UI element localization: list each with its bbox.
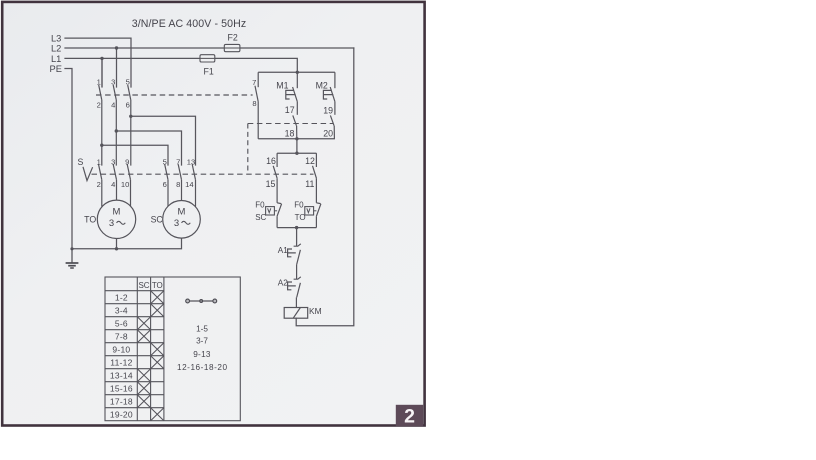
switch S actuator xyxy=(78,157,93,181)
svg-text:TO: TO xyxy=(152,281,163,290)
S contact 13-14 xyxy=(192,164,195,206)
svg-text:11: 11 xyxy=(305,179,314,189)
svg-text:5: 5 xyxy=(126,77,130,86)
svg-text:2: 2 xyxy=(97,180,101,189)
S contact 1-2 xyxy=(99,164,102,206)
wire L2 horizontal xyxy=(65,47,354,49)
wire box bottom to aux box xyxy=(296,139,298,153)
svg-text:5-6: 5-6 xyxy=(115,319,128,329)
svg-text:SC: SC xyxy=(151,214,164,224)
svg-text:L1: L1 xyxy=(51,54,61,64)
table row labels xyxy=(110,293,133,420)
motor SC (M 3~) xyxy=(151,201,201,239)
contactor box bottom bus xyxy=(258,138,335,140)
svg-text:15-16: 15-16 xyxy=(110,384,133,394)
svg-text:11-12: 11-12 xyxy=(110,358,132,368)
svg-text:15: 15 xyxy=(266,179,276,189)
svg-text:6: 6 xyxy=(163,180,167,189)
svg-text:13-14: 13-14 xyxy=(110,371,133,381)
svg-text:8: 8 xyxy=(176,180,180,189)
junction node pole1 branch xyxy=(100,144,103,147)
svg-text:F2: F2 xyxy=(228,32,238,42)
branch wire pole2 to S contact 7 xyxy=(116,131,181,166)
svg-text:9-13: 9-13 xyxy=(193,350,211,359)
svg-text:SC: SC xyxy=(138,281,149,290)
contact A1 xyxy=(278,244,301,279)
svg-text:1-2: 1-2 xyxy=(115,293,128,303)
wire pole1 lower xyxy=(101,145,103,165)
terminal group labels xyxy=(177,325,227,373)
figure badge 2 xyxy=(396,405,423,428)
svg-text:M: M xyxy=(178,206,186,217)
fuse F1 xyxy=(200,55,215,77)
wire right return from KM to L2 xyxy=(296,48,354,326)
svg-text:F0: F0 xyxy=(255,200,265,209)
fuse F2 xyxy=(224,32,240,51)
svg-text:12: 12 xyxy=(305,156,315,166)
junction node pole3 branch xyxy=(129,115,132,118)
thermal cutout F0 TO xyxy=(294,200,321,227)
contact 16-15 xyxy=(273,153,277,203)
svg-text:3-4: 3-4 xyxy=(115,306,128,316)
svg-text:3: 3 xyxy=(174,218,179,229)
motor TO (M 3~) xyxy=(84,200,136,238)
svg-text:2: 2 xyxy=(97,101,101,110)
svg-text:18: 18 xyxy=(285,129,295,139)
junction node L2/pole2 xyxy=(115,46,118,49)
svg-text:PE: PE xyxy=(50,64,62,74)
svg-text:13: 13 xyxy=(187,157,195,166)
svg-text:1-5: 1-5 xyxy=(196,325,208,334)
junction node aux box top xyxy=(295,152,298,155)
svg-text:6: 6 xyxy=(126,101,130,110)
S contact 3-4 xyxy=(113,164,116,200)
thermal cutout F0 SC xyxy=(255,200,281,227)
dashed coupling 17-18/19-20 xyxy=(248,123,333,125)
branch wire pole1 to S contact 5 xyxy=(102,145,168,165)
junction node L1/pole1 xyxy=(100,57,103,60)
S contact 5-6 xyxy=(165,164,168,206)
wire PE xyxy=(65,69,72,249)
svg-text:M: M xyxy=(113,206,121,217)
svg-text:7: 7 xyxy=(176,157,180,166)
svg-text:7: 7 xyxy=(252,78,256,87)
aux bottom bus xyxy=(277,227,316,229)
aux box top bus xyxy=(277,152,316,154)
svg-text:9: 9 xyxy=(125,157,129,166)
contact M2 xyxy=(323,72,335,115)
svg-text:10: 10 xyxy=(121,180,129,189)
svg-text:3/N/PE AC 400V - 50Hz: 3/N/PE AC 400V - 50Hz xyxy=(132,18,247,30)
wire L1 horizontal xyxy=(65,58,297,72)
junction node box top feed xyxy=(296,71,299,74)
svg-text:2: 2 xyxy=(404,405,415,427)
svg-text:M1: M1 xyxy=(276,81,288,91)
svg-text:TO: TO xyxy=(84,214,96,224)
wire L3 horizontal xyxy=(65,38,131,87)
dashed coupling main switch to contact 7/8 xyxy=(96,94,253,96)
dashed coupling S to contacts 16/12 xyxy=(92,173,314,175)
svg-text:F0: F0 xyxy=(294,200,304,209)
junction node PE corner xyxy=(70,247,73,250)
svg-text:8: 8 xyxy=(252,99,256,108)
contact M1 xyxy=(286,72,298,115)
svg-text:7-8: 7-8 xyxy=(115,332,128,342)
svg-text:3: 3 xyxy=(109,218,114,229)
contact 17-18 xyxy=(293,115,297,138)
wire L1 drop to pole 1 xyxy=(101,58,103,87)
dashed link vertical xyxy=(247,124,249,175)
svg-text:A2: A2 xyxy=(278,279,288,288)
main switch pole 1 (contacts 1-2) xyxy=(99,58,102,145)
svg-text:S: S xyxy=(78,157,84,167)
main switch pole 3 (contacts 5-6) xyxy=(128,85,131,166)
branch wire pole3 to S contact 13 xyxy=(131,116,196,165)
junction node motor TO / PE bus xyxy=(115,247,118,250)
svg-text:1: 1 xyxy=(97,157,101,166)
contact 12-11 xyxy=(313,153,317,203)
selector position symbol xyxy=(186,299,217,303)
svg-text:L3: L3 xyxy=(51,34,61,44)
svg-text:SC: SC xyxy=(255,213,266,222)
table X marks xyxy=(137,291,164,421)
contact A2 xyxy=(278,277,301,308)
svg-text:1: 1 xyxy=(97,77,101,86)
svg-text:F1: F1 xyxy=(204,67,214,77)
svg-text:12-16-18-20: 12-16-18-20 xyxy=(177,363,227,372)
wire aux bottom to A1 xyxy=(296,228,298,247)
junction node box bottom xyxy=(295,137,298,140)
svg-text:3: 3 xyxy=(111,157,115,166)
coil KM xyxy=(284,306,321,318)
main switch pole 2 (contacts 3-4) xyxy=(113,85,116,166)
svg-text:A1: A1 xyxy=(278,246,288,255)
svg-text:19: 19 xyxy=(323,105,333,115)
contact 19-20 xyxy=(330,115,334,138)
wire PE bus bottom xyxy=(72,248,117,250)
junction node pole2 branch xyxy=(115,129,118,132)
svg-text:M2: M2 xyxy=(316,81,328,91)
svg-text:9-10: 9-10 xyxy=(112,345,130,355)
svg-text:5: 5 xyxy=(163,157,167,166)
ground symbol xyxy=(66,249,79,268)
svg-text:4: 4 xyxy=(111,180,115,189)
S contact 7-8 xyxy=(178,164,181,200)
wire L2 drop to pole 2 xyxy=(116,48,118,87)
svg-text:3: 3 xyxy=(111,77,115,86)
svg-text:17: 17 xyxy=(285,105,295,115)
svg-text:TO: TO xyxy=(295,213,306,222)
S contact 9-10 xyxy=(127,164,130,206)
svg-text:L2: L2 xyxy=(51,44,61,54)
junction node aux bottom xyxy=(295,226,298,229)
contactor box top bus xyxy=(258,71,335,73)
svg-text:20: 20 xyxy=(323,129,333,139)
svg-text:19-20: 19-20 xyxy=(110,410,133,420)
svg-text:KM: KM xyxy=(309,306,322,316)
selector table xyxy=(105,277,240,421)
wire motor SC bottom xyxy=(117,238,182,249)
svg-text:3-7: 3-7 xyxy=(196,336,208,345)
wire motor TO bottom xyxy=(116,239,118,249)
svg-text:16: 16 xyxy=(266,156,276,166)
svg-text:17-18: 17-18 xyxy=(110,397,133,407)
svg-text:4: 4 xyxy=(111,101,115,110)
contact 7-8 xyxy=(255,72,258,139)
svg-text:14: 14 xyxy=(185,180,193,189)
panel frame xyxy=(2,2,424,426)
